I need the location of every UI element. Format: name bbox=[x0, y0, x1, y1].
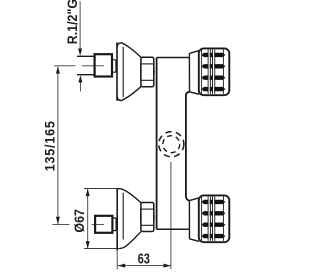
svg-text:R.1/2"G: R.1/2"G bbox=[65, 0, 81, 44]
svg-text:Ø67: Ø67 bbox=[71, 209, 87, 233]
svg-text:63: 63 bbox=[138, 250, 150, 267]
svg-text:135/165: 135/165 bbox=[42, 120, 58, 171]
